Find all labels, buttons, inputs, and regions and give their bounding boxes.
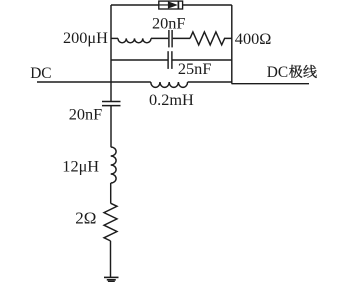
svg-text:25nF: 25nF <box>178 59 211 78</box>
svg-text:20nF: 20nF <box>69 104 102 123</box>
svg-text:20nF: 20nF <box>152 14 185 33</box>
svg-text:DC: DC <box>30 65 51 82</box>
svg-text:DC: DC <box>267 64 288 81</box>
svg-text:2Ω: 2Ω <box>75 208 96 227</box>
svg-text:400Ω: 400Ω <box>235 29 272 48</box>
svg-text:200μH: 200μH <box>63 28 108 47</box>
svg-text:0.2mH: 0.2mH <box>149 90 194 109</box>
svg-text:12μH: 12μH <box>62 157 99 176</box>
